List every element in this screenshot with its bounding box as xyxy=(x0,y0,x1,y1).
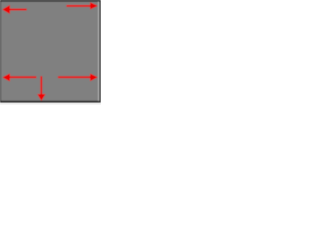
gray panel fill xyxy=(1,2,99,101)
right inner highlight line xyxy=(98,2,99,101)
arrow: bottom-left pointing left xyxy=(2,73,36,81)
panel dark border (top/left/right/bottom) xyxy=(0,0,101,103)
arrow: bottom-right pointing right xyxy=(58,74,98,82)
white page background xyxy=(0,0,101,105)
arrow: top-right pointing right xyxy=(66,2,98,9)
arrow: top-left pointing left xyxy=(2,5,27,14)
arrow: bottom-middle pointing down xyxy=(37,76,45,101)
